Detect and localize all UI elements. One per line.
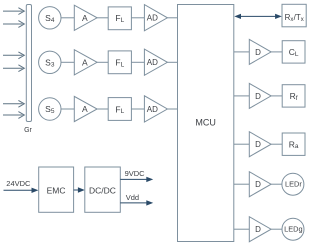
input arrow 3 (sensor S3 line a): [3, 52, 24, 59]
wire MCU to D (CL row): [234, 51, 249, 53]
svg-text:AD: AD: [147, 14, 158, 23]
wire MCU to D (LEDr row): [234, 183, 249, 185]
EMC filter box: [39, 167, 74, 212]
wire S4 to A: [61, 17, 74, 19]
input arrow 4 (sensor S3 line b): [3, 65, 24, 72]
wire Vdd output arrow: [120, 200, 153, 205]
svg-text:LEDr: LEDr: [285, 180, 302, 189]
wire S3 to A: [61, 61, 74, 63]
wire A to FL (row 3): [97, 108, 108, 110]
input arrow 1 (sensor S4 line a): [3, 8, 24, 15]
bidirectional wire MCU to Rx/Tx: [234, 14, 281, 19]
svg-text:D: D: [255, 140, 261, 149]
DC/DC converter box: [85, 167, 121, 212]
wire FL to AD (row 1): [131, 17, 144, 19]
wire EMC to DC/DC arrow: [74, 187, 85, 192]
svg-text:A: A: [82, 104, 88, 114]
wire D to CL: [271, 51, 282, 53]
wire D to Rf: [271, 95, 282, 97]
svg-text:AD: AD: [147, 105, 158, 114]
svg-text:DC/DC: DC/DC: [89, 185, 116, 195]
svg-text:AD: AD: [147, 58, 158, 67]
sensor S4: [39, 7, 61, 29]
wire MCU to D (Ra row): [234, 143, 249, 145]
svg-text:EMC: EMC: [47, 185, 66, 195]
wire AD to MCU (row 1): [167, 17, 177, 19]
wire A to FL (row 1): [97, 17, 108, 19]
amplifier A (row 2): [74, 50, 97, 75]
sensor S3: [39, 51, 61, 73]
wire MCU to D (Rf row): [234, 95, 249, 97]
wire FL to AD (row 2): [131, 61, 144, 63]
svg-text:LEDg: LEDg: [284, 225, 303, 234]
svg-text:9VDC: 9VDC: [125, 169, 146, 178]
LED green LEDg: [282, 218, 304, 240]
input arrow 5 (sensor S5 line a): [3, 100, 24, 107]
driver D (CL row): [249, 39, 271, 64]
driver D (LEDg row): [249, 217, 271, 242]
wire FL to AD (row 3): [131, 108, 144, 110]
driver D (LEDr row): [249, 172, 271, 197]
wire S5 to A: [61, 108, 74, 110]
svg-text:Gr: Gr: [24, 127, 32, 134]
wire D to LEDg: [271, 228, 282, 230]
svg-text:MCU: MCU: [195, 118, 216, 128]
filter FL (row 1): [108, 7, 131, 30]
sensor S5: [39, 98, 61, 120]
svg-text:A: A: [82, 13, 88, 23]
svg-text:Vdd: Vdd: [126, 193, 139, 202]
ADC AD (row 1): [144, 5, 167, 31]
driver D (Ra row): [249, 132, 271, 157]
ADC AD (row 3): [144, 96, 167, 122]
transceiver box Rx/Tx: [282, 4, 306, 27]
input arrow 2 (sensor S4 line b): [3, 21, 24, 28]
LED red LEDr: [282, 173, 304, 195]
svg-text:D: D: [255, 92, 261, 101]
wire 9VDC output arrow: [120, 177, 153, 182]
filter FL (row 2): [108, 51, 131, 74]
ADC AD (row 2): [144, 49, 167, 75]
wire D to LEDr: [271, 183, 282, 185]
svg-text:D: D: [255, 48, 261, 57]
resistor box Ra: [282, 133, 305, 155]
wire D to Ra: [271, 143, 282, 145]
wire A to FL (row 2): [97, 61, 108, 63]
svg-text:24VDC: 24VDC: [6, 179, 31, 188]
svg-text:D: D: [255, 180, 261, 189]
grating bar Gr: [24, 5, 32, 135]
amplifier A (row 1): [74, 5, 97, 30]
amplifier A (row 3): [74, 96, 97, 121]
wire AD to MCU (row 2): [167, 61, 177, 63]
MCU U1: [178, 5, 234, 242]
driver D (Rf row): [249, 83, 271, 108]
wire AD to MCU (row 3): [167, 108, 177, 110]
input arrow 6 (sensor S5 line b): [3, 112, 24, 119]
svg-text:D: D: [255, 225, 261, 234]
capacitor load box CL: [282, 41, 305, 63]
svg-text:A: A: [82, 57, 88, 67]
wire 24VDC supply arrow into EMC: [4, 188, 39, 193]
filter FL (row 3): [108, 98, 131, 121]
resistor box Rf: [282, 85, 305, 107]
wire MCU to D (LEDg row): [234, 228, 249, 230]
